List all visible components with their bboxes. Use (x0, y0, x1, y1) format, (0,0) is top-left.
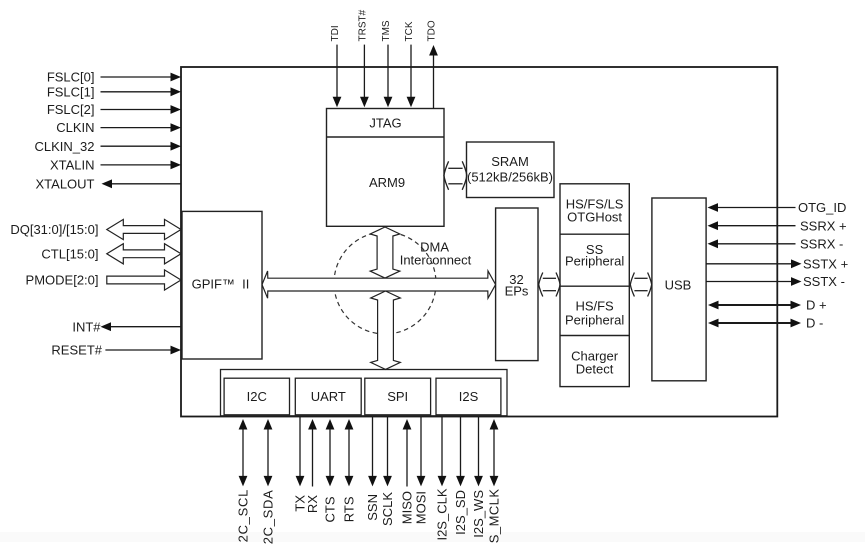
arrowhead TMS (384, 97, 393, 108)
arrowhead SSRX+ (708, 221, 719, 230)
wire OTG_ID (714, 207, 796, 209)
wire TRST# (363, 45, 365, 98)
wire FSLC[0] (101, 76, 174, 78)
wire I2S_CLK (441, 417, 443, 479)
svg-text:I2S: I2S (459, 389, 479, 404)
arrowhead CLKIN (171, 123, 182, 132)
wire I2S_MCLK (493, 427, 495, 478)
arrowhead MISO up (403, 419, 412, 430)
wire FSLC[1] (101, 91, 174, 93)
wire CLKIN_32 (101, 145, 174, 147)
svg-text:2C_SDA: 2C_SDA (261, 490, 276, 545)
wire RTS (348, 427, 350, 478)
svg-text:Detect: Detect (576, 362, 614, 377)
svg-text:MISO: MISO (400, 491, 415, 524)
wire SSRX+ (714, 225, 796, 227)
wire CTS (329, 427, 331, 478)
arrowhead TDI (333, 97, 342, 108)
svg-text:FSLC[1]: FSLC[1] (47, 84, 95, 99)
svg-text:USB: USB (665, 277, 692, 292)
wire TCK (410, 45, 412, 98)
arrowhead RESET# (171, 346, 182, 355)
wire TDI (336, 45, 338, 98)
svg-text:I2S_SD: I2S_SD (453, 490, 468, 535)
arrowhead I2S_SD down (456, 476, 465, 487)
block serial peripherals container (221, 370, 508, 416)
svg-text:ARM9: ARM9 (369, 175, 405, 190)
main chip boundary box (181, 67, 777, 417)
svg-text:RX: RX (305, 495, 320, 513)
block 32 EPs (496, 208, 538, 361)
svg-text:I2S_WS: I2S_WS (471, 490, 486, 538)
arrowhead D- left (708, 319, 719, 328)
svg-text:CLKIN: CLKIN (56, 120, 94, 135)
block SPI (365, 378, 431, 415)
wire RESET# (105, 349, 172, 351)
svg-text:CTS: CTS (323, 496, 338, 522)
svg-text:D +: D + (806, 298, 827, 313)
wire: GPIF II to 32 EPs horizontal double arrow (DMA bus) (262, 271, 496, 298)
arrowhead OTG_ID (708, 203, 719, 212)
svg-text:UART: UART (311, 389, 346, 404)
arrowhead SSTX- (791, 277, 802, 286)
arrowhead FSLC[1] (171, 87, 182, 96)
wire SCLK (387, 417, 389, 479)
wire CLKIN (101, 127, 174, 129)
arrowhead I2C_SDA down (264, 476, 273, 487)
block USB PHY column (560, 184, 629, 387)
bus arrow PMODE (107, 270, 181, 290)
svg-text:HS/FS: HS/FS (575, 299, 614, 314)
arrowhead I2C_SCL up (239, 419, 248, 430)
wire: DMA bus to peripherals vertical double arrow (371, 291, 401, 369)
svg-text:Peripheral: Peripheral (565, 254, 624, 269)
wire: ARM9 to DMA bus vertical double arrow (370, 227, 400, 278)
arrowhead XTALIN (171, 161, 182, 170)
svg-text:FSLC[0]: FSLC[0] (47, 70, 95, 85)
block GPIF II (182, 211, 262, 359)
wire XTALIN (101, 164, 174, 166)
wire I2C_SDA (267, 427, 269, 478)
arrowhead I2S_WS down (474, 476, 483, 487)
wire TDO (433, 55, 435, 109)
arrowhead I2S_MCLK up (490, 419, 499, 430)
arrowhead D- right (791, 319, 802, 328)
svg-text:EPs: EPs (505, 284, 529, 299)
arrowhead INT# (101, 322, 112, 331)
arrowhead RTS up (345, 419, 354, 430)
arrowhead I2S_CLK down (438, 476, 447, 487)
arrowhead XTALOUT (102, 179, 113, 188)
arrowhead TCK (407, 97, 416, 108)
arrowhead TRST# (360, 97, 369, 108)
arrowhead TX down (296, 476, 305, 487)
arrowhead RX up (308, 419, 317, 430)
fancy double arrow ARM9 to SRAM (444, 161, 467, 190)
svg-text:RESET#: RESET# (51, 343, 102, 358)
wire SSTX- (706, 281, 792, 283)
arrowhead FSLC[0] (171, 73, 182, 82)
block JTAG / ARM9 (327, 109, 445, 227)
svg-text:INT#: INT# (72, 319, 101, 334)
arrowhead I2C_SDA up (264, 419, 273, 430)
wire I2S_WS (478, 417, 480, 479)
svg-text:XTALIN: XTALIN (50, 158, 95, 173)
arrowhead CLKIN_32 (171, 142, 182, 151)
wire MISO (406, 427, 408, 487)
svg-text:Peripheral: Peripheral (565, 313, 624, 328)
block SRAM (467, 142, 555, 198)
block UART (295, 378, 361, 415)
svg-text:TDI: TDI (330, 25, 341, 41)
svg-text:I2S_CLK: I2S_CLK (435, 488, 450, 540)
svg-text:I2C: I2C (247, 389, 267, 404)
svg-text:CTL[15:0]: CTL[15:0] (41, 246, 98, 261)
svg-text:TDO: TDO (427, 20, 438, 41)
svg-text:TCK: TCK (404, 21, 415, 41)
wire TMS (387, 45, 389, 98)
wire RX (312, 427, 314, 487)
arrowhead CTS down (326, 476, 335, 487)
wire I2C_SCL (242, 427, 244, 478)
svg-text:MOSI: MOSI (414, 491, 429, 524)
fancy double arrow USB column to USB (630, 273, 651, 297)
svg-text:CLKIN_32: CLKIN_32 (35, 139, 95, 154)
wire INT# (109, 326, 181, 328)
wire D- (712, 322, 795, 324)
arrowhead SSRX- (708, 239, 719, 248)
fancy double arrow 32 EPs to USB column (539, 273, 560, 297)
svg-text:SSRX -: SSRX - (800, 236, 843, 251)
arrowhead FSLC[2] (171, 105, 182, 114)
svg-text:TMS: TMS (381, 20, 392, 41)
arrowhead TDO (429, 45, 438, 56)
wire I2S_SD (460, 417, 462, 479)
svg-text:JTAG: JTAG (369, 115, 401, 130)
wire D+ (712, 304, 795, 306)
wire XTALOUT (111, 183, 181, 185)
svg-text:SPI: SPI (387, 389, 408, 404)
bus arrow CTL (107, 244, 181, 264)
svg-text:RTS: RTS (342, 496, 357, 522)
svg-text:FSLC[2]: FSLC[2] (47, 102, 95, 117)
svg-text:(512kB/256kB): (512kB/256kB) (467, 169, 553, 184)
svg-text:D -: D - (806, 316, 823, 331)
wire SSTX+ (706, 263, 792, 265)
svg-text:GPIF™ II: GPIF™ II (192, 276, 250, 291)
arrowhead MOSI down (417, 476, 426, 487)
wire FSLC[2] (101, 109, 174, 111)
svg-text:SSN: SSN (365, 494, 380, 521)
block I2C (224, 378, 289, 415)
arrowhead I2C_SCL down (239, 476, 248, 487)
block USB (652, 198, 706, 381)
wire MOSI (420, 417, 422, 479)
svg-text:SCLK: SCLK (380, 492, 395, 526)
svg-text:XTALOUT: XTALOUT (36, 176, 95, 191)
svg-text:OTG_ID: OTG_ID (798, 200, 846, 215)
arrowhead RTS down (345, 476, 354, 487)
arrowhead SCLK down (383, 476, 392, 487)
svg-text:SSRX +: SSRX + (800, 218, 847, 233)
arrowhead I2S_MCLK down (490, 476, 499, 487)
DMA interconnect dashed circle (334, 232, 436, 334)
wire TX (299, 417, 301, 479)
svg-text:OTGHost: OTGHost (567, 210, 622, 225)
svg-text:SSTX -: SSTX - (803, 274, 845, 289)
svg-text:Interconnect: Interconnect (400, 253, 472, 268)
arrowhead SSN down (368, 476, 377, 487)
wire SSN (372, 417, 374, 479)
arrowhead SSTX+ (791, 259, 802, 268)
arrowhead D+ right (791, 301, 802, 310)
bus arrow DQ (107, 219, 181, 239)
svg-text:DQ[31:0]/[15:0]: DQ[31:0]/[15:0] (10, 222, 98, 237)
faint bottom band (0, 532, 865, 542)
svg-text:2C_SCL: 2C_SCL (236, 489, 251, 542)
svg-text:TRST#: TRST# (358, 9, 369, 41)
svg-text:SRAM: SRAM (491, 154, 529, 169)
block I2S (436, 378, 501, 415)
wire SSRX- (714, 243, 796, 245)
svg-text:SSTX +: SSTX + (803, 256, 848, 271)
svg-text:PMODE[2:0]: PMODE[2:0] (26, 273, 99, 288)
svg-text:S_MCLK: S_MCLK (487, 489, 502, 544)
arrowhead CTS up (326, 419, 335, 430)
arrowhead D+ left (708, 301, 719, 310)
